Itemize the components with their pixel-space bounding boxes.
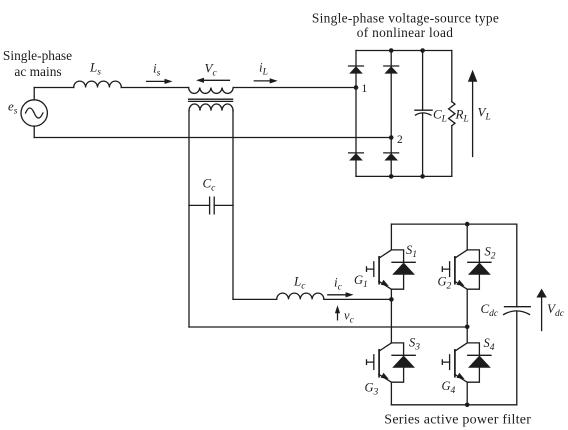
inductor L_c — [277, 293, 324, 299]
resistor R_L — [449, 102, 455, 126]
current arrow i_L — [254, 78, 277, 83]
capacitor C_L — [415, 110, 432, 115]
filter left leg top segment — [390, 224, 392, 250]
IGBT S1 — [367, 250, 416, 289]
voltage arrow V_dc (points up) — [536, 289, 546, 331]
diode D1 — [349, 66, 364, 74]
diode D2 — [384, 66, 399, 74]
current arrow i_c — [328, 292, 354, 297]
diode D3 — [349, 153, 364, 161]
junction dot: top rail / middle leg — [465, 222, 470, 227]
svg-text:VL: VL — [478, 105, 491, 123]
junction dot: L_c wire / left leg — [389, 297, 394, 302]
label: Single-phase ac mains — [3, 48, 72, 79]
label: nonlinear load title — [312, 11, 499, 40]
svg-text:Lc: Lc — [293, 273, 306, 291]
transformer T primary winding — [189, 88, 234, 94]
voltage arrow V_L (points up) — [468, 70, 477, 157]
voltage arrow v_c (points up) — [335, 305, 340, 320]
svg-text:S3: S3 — [409, 336, 420, 353]
filter left leg bottom segment — [390, 382, 392, 405]
wire source top stub — [33, 88, 35, 100]
load bridge bottom rail — [356, 175, 452, 177]
wire bottom: source to node 2 — [34, 137, 391, 139]
svg-text:CL: CL — [433, 107, 447, 125]
wire top: source to L_s — [34, 87, 73, 89]
svg-text:G3: G3 — [365, 381, 379, 398]
svg-text:of nonlinear load: of nonlinear load — [357, 25, 454, 40]
node 1 junction — [354, 85, 359, 90]
IGBT S2 — [442, 250, 491, 289]
ac source e_s — [21, 100, 47, 126]
svg-text:Ls: Ls — [89, 59, 101, 77]
wire: right lead to L_c — [233, 298, 277, 300]
filter middle leg bottom segment — [466, 382, 468, 405]
svg-text:ac mains: ac mains — [14, 64, 61, 79]
junction dot top leg2 — [389, 48, 394, 53]
svg-text:es: es — [8, 98, 18, 116]
junction dot bottom leg3 — [420, 174, 425, 179]
filter left leg mid segment — [390, 289, 392, 343]
voltage arrow V_c (points left) — [196, 78, 229, 83]
svg-text:S4: S4 — [484, 336, 495, 353]
svg-text:RL: RL — [455, 107, 469, 125]
svg-text:Vdc: Vdc — [547, 301, 565, 319]
svg-text:Cdc: Cdc — [481, 301, 499, 319]
junction dot: mid horizontal / middle leg — [465, 325, 470, 330]
load bridge second leg — [390, 51, 392, 177]
svg-text:Single-phase: Single-phase — [3, 48, 72, 63]
svg-text:vc: vc — [344, 308, 355, 325]
filter middle leg top segment — [466, 224, 468, 250]
current arrow i_s — [147, 79, 173, 84]
capacitor C_dc — [504, 307, 531, 315]
capacitor C_L leg — [422, 51, 424, 177]
capacitor C_c — [189, 197, 233, 214]
load bridge left leg — [355, 51, 357, 177]
svg-text:S1: S1 — [406, 243, 417, 260]
node 2 junction — [389, 135, 394, 140]
load bridge top rail — [356, 50, 452, 52]
svg-text:Cc: Cc — [203, 176, 217, 194]
svg-text:2: 2 — [397, 134, 403, 146]
IGBT S3 — [367, 343, 416, 382]
filter right leg with C_dc gap — [516, 224, 518, 405]
svg-text:Vc: Vc — [205, 60, 218, 78]
transformer secondary right lead down — [232, 111, 234, 300]
wire: L_c to filter left leg — [324, 298, 392, 300]
diode D4 — [384, 153, 399, 161]
svg-text:is: is — [153, 61, 161, 79]
resistor R_L leg — [451, 51, 453, 177]
svg-text:ic: ic — [334, 275, 343, 293]
transformer secondary left lead down — [188, 111, 190, 327]
svg-text:Single-phase voltage-source ty: Single-phase voltage-source type — [312, 11, 499, 26]
junction dot top leg3 — [420, 48, 425, 53]
svg-text:G1: G1 — [354, 273, 368, 290]
junction dot: bottom rail / middle leg — [465, 403, 470, 408]
filter box bottom rail — [391, 404, 516, 406]
wire source bottom stub — [33, 126, 35, 137]
svg-text:iL: iL — [259, 60, 268, 78]
svg-text:1: 1 — [362, 83, 368, 95]
wire top: transformer to node 1 — [233, 87, 356, 89]
wire: left lead to filter mid leg (horizontal) — [189, 326, 467, 328]
svg-text:S2: S2 — [485, 245, 496, 262]
svg-text:G4: G4 — [442, 379, 456, 396]
transformer secondary winding — [189, 104, 233, 111]
wire top: L_s to transformer — [121, 87, 188, 89]
svg-text:Series active power filter: Series active power filter — [384, 412, 531, 427]
junction dot bottom leg2 — [389, 174, 394, 179]
filter middle leg mid segment — [466, 289, 468, 343]
IGBT S4 — [442, 343, 491, 382]
filter box top rail — [391, 223, 516, 225]
transformer core bars — [189, 99, 233, 101]
inductor L_s — [74, 81, 122, 87]
